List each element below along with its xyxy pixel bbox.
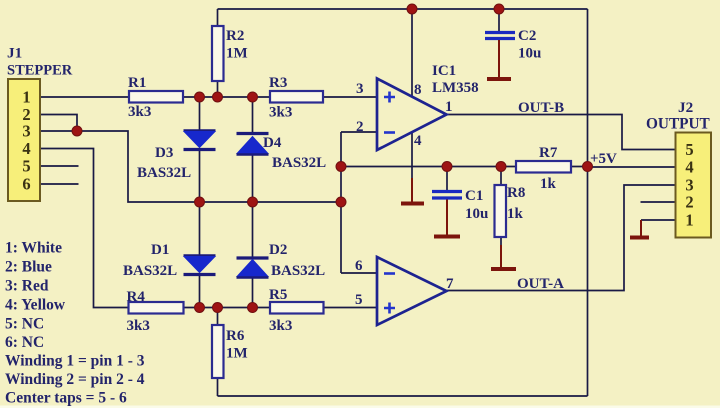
svg-text:R6: R6 [226, 328, 245, 344]
svg-text:3: 3 [22, 122, 30, 141]
svg-text:Winding 1 = pin 1 - 3: Winding 1 = pin 1 - 3 [5, 353, 145, 370]
svg-text:4: 4 [414, 133, 422, 149]
svg-text:1: 1 [685, 211, 693, 230]
svg-text:2: Blue: 2: Blue [5, 259, 52, 276]
wire J1 pin5 stub NC [40, 165, 79, 167]
node bottom row D1 junction [195, 303, 205, 313]
wire R8 top lead [500, 167, 502, 186]
capacitor C2 [485, 33, 515, 39]
svg-text:5: 5 [685, 140, 693, 159]
svg-text:1: 1 [22, 88, 30, 107]
diode D4 [237, 134, 269, 155]
wire R1 to R3 node row [183, 96, 270, 98]
ground op1 pin4 [401, 202, 424, 206]
resistor R2 [212, 26, 224, 81]
resistor R6 [212, 325, 224, 378]
svg-text:LM358: LM358 [432, 80, 479, 96]
wire op1 output OUT-B to J2 pin5 [447, 115, 676, 150]
svg-text:1: 1 [445, 99, 453, 115]
wire D3 top lead [199, 97, 201, 131]
wire +5V right rail [587, 9, 589, 396]
wire R6 bottom lead [217, 378, 219, 396]
wire R3 to op-amp pin3 [323, 96, 377, 98]
node mid bus D2 junction [248, 197, 258, 207]
wire op2 pin6 [341, 272, 377, 274]
svg-text:R3: R3 [269, 75, 287, 91]
resistor R5 [270, 302, 324, 314]
node mid bus D3 junction [195, 197, 205, 207]
svg-text:3k3: 3k3 [128, 104, 151, 120]
svg-text:3k3: 3k3 [269, 105, 292, 121]
capacitor C1 [432, 192, 462, 199]
svg-text:5: NC: 5: NC [5, 316, 44, 333]
diode D3 [184, 131, 216, 150]
svg-text:4: Yellow: 4: Yellow [5, 297, 66, 314]
svg-text:5: 5 [355, 292, 363, 308]
svg-text:+5V: +5V [590, 151, 617, 167]
wire J1 pin2 down to pin3 wire [40, 115, 77, 132]
svg-text:5: 5 [22, 157, 30, 176]
wire R5 to op-amp pin5 [324, 307, 378, 309]
svg-text:BAS32L: BAS32L [137, 165, 191, 181]
diode D1 [184, 256, 216, 275]
wire J2 pin1 to ground [641, 219, 676, 221]
svg-text:7: 7 [446, 276, 454, 292]
wire op1 pin4 to ground [411, 133, 413, 180]
wire J1 pin4 to R4 [40, 149, 129, 308]
node C1 junction [442, 162, 452, 172]
wire D3 bottom lead [199, 150, 201, 202]
wire D1 bottom lead [199, 275, 201, 308]
svg-text:1k: 1k [507, 206, 524, 222]
wire J1 pin1 to R1 [40, 96, 129, 98]
node D4 top junction [248, 92, 258, 102]
node top rail pin8 junction [407, 4, 417, 14]
svg-text:C1: C1 [465, 188, 483, 204]
wire R7 to +5V rail [571, 166, 588, 168]
svg-text:STEPPER: STEPPER [7, 63, 73, 79]
wire C2 top lead [498, 9, 500, 32]
svg-text:10u: 10u [518, 46, 541, 62]
J2 pin1 ground lead [640, 220, 642, 236]
node R1/R2/R3 junction a [195, 92, 205, 102]
svg-text:3: Red: 3: Red [5, 278, 49, 295]
wire D1 top lead [199, 202, 201, 255]
wire R4 to R5 bottom row [184, 307, 271, 309]
resistor R8 [495, 185, 507, 237]
svg-text:8: 8 [414, 82, 422, 98]
wire op2 output OUT-A to J2 pin3 [447, 185, 676, 291]
svg-text:R7: R7 [539, 145, 558, 161]
svg-text:1M: 1M [226, 346, 248, 362]
node R8 junction [496, 162, 506, 172]
wire R2 top lead [217, 9, 219, 26]
wire D4 bottom lead [252, 154, 254, 202]
svg-text:6: NC: 6: NC [5, 334, 44, 351]
svg-text:3k3: 3k3 [269, 318, 292, 334]
wire +5V to J2 pin4 [588, 166, 676, 168]
wire R6 top lead [217, 308, 219, 326]
svg-text:6: 6 [22, 175, 30, 194]
svg-text:BAS32L: BAS32L [271, 263, 325, 279]
wire J1 pin6 stub NC [40, 183, 79, 185]
resistor R1 [129, 91, 183, 103]
wire D2 top lead [252, 202, 254, 257]
svg-text:1: White: 1: White [5, 240, 62, 257]
svg-text:BAS32L: BAS32L [272, 155, 326, 171]
svg-text:4: 4 [685, 158, 693, 177]
svg-text:J1: J1 [7, 45, 22, 62]
ground C1 [434, 235, 460, 239]
svg-text:R2: R2 [226, 28, 244, 44]
node R2 bottom junction [213, 92, 223, 102]
svg-text:3: 3 [356, 81, 364, 97]
wire R2 bottom lead [217, 81, 219, 97]
op-amp U1B IC1 [377, 257, 447, 325]
wire +5V top rail [218, 8, 588, 10]
wire C1 top lead [446, 167, 448, 191]
svg-text:D4: D4 [263, 135, 282, 151]
resistor R3 [270, 91, 323, 103]
svg-text:OUT-B: OUT-B [518, 100, 564, 116]
ground R8 [491, 267, 516, 271]
svg-text:1k: 1k [540, 176, 557, 192]
node +5V junction [583, 162, 593, 172]
svg-text:Center taps = 5 - 6: Center taps = 5 - 6 [5, 390, 127, 407]
svg-text:OUT-A: OUT-A [517, 276, 564, 292]
svg-text:J2: J2 [678, 99, 693, 116]
wire D2 bottom lead [252, 277, 254, 308]
node mid bus right junction [336, 197, 346, 207]
wire bias vertical node B [340, 132, 342, 273]
ground C2 [487, 77, 511, 81]
svg-text:IC1: IC1 [432, 63, 456, 79]
wire R8 bottom lead [500, 237, 502, 247]
C2 ground lead [498, 40, 500, 77]
svg-text:2: 2 [685, 193, 693, 212]
legend wire colors [5, 240, 145, 407]
wire op1 pin2 to bias node [341, 131, 377, 133]
svg-text:R1: R1 [128, 75, 146, 91]
svg-text:6: 6 [355, 258, 363, 274]
R8 ground lead [500, 245, 502, 267]
wire op1 pin8 to +5V [411, 9, 413, 96]
C1 ground lead [446, 200, 448, 236]
svg-text:D1: D1 [151, 242, 169, 258]
svg-text:1M: 1M [226, 46, 248, 62]
node bottom row D2 junction [248, 303, 258, 313]
svg-text:3k3: 3k3 [127, 318, 150, 334]
wire bias bus to R7 [341, 166, 516, 168]
ground J2 pin1 [630, 236, 649, 240]
wire J1 pin3 to mid bus [40, 131, 341, 202]
svg-text:2: 2 [356, 119, 364, 135]
svg-text:C2: C2 [518, 28, 536, 44]
svg-text:Winding 2 = pin 2 - 4: Winding 2 = pin 2 - 4 [5, 371, 145, 388]
svg-text:R8: R8 [507, 185, 525, 201]
node top rail C2 junction [494, 4, 504, 14]
op1 pin4 ground lead [411, 178, 413, 202]
wire bottom rail R6 to +5V [218, 395, 588, 397]
node J1 pin2/3 junction [72, 126, 82, 136]
svg-text:4: 4 [22, 139, 30, 158]
wire D4 top lead [252, 97, 254, 133]
resistor R7 [516, 161, 571, 173]
node bias left junction [336, 162, 346, 172]
svg-text:D3: D3 [155, 145, 173, 161]
svg-text:R4: R4 [127, 289, 146, 305]
connector J1 [8, 79, 40, 201]
diode D2 [237, 258, 269, 278]
svg-text:OUTPUT: OUTPUT [646, 116, 710, 133]
svg-text:10u: 10u [465, 206, 488, 222]
svg-text:D2: D2 [269, 242, 287, 258]
op-amp U1A IC1 [377, 79, 447, 151]
wire J2 pin2 stub [641, 201, 676, 203]
svg-text:R5: R5 [269, 287, 287, 303]
node bottom row R6 junction [213, 303, 223, 313]
resistor R4 [129, 302, 184, 314]
svg-text:BAS32L: BAS32L [123, 263, 177, 279]
connector J2 [676, 133, 712, 238]
